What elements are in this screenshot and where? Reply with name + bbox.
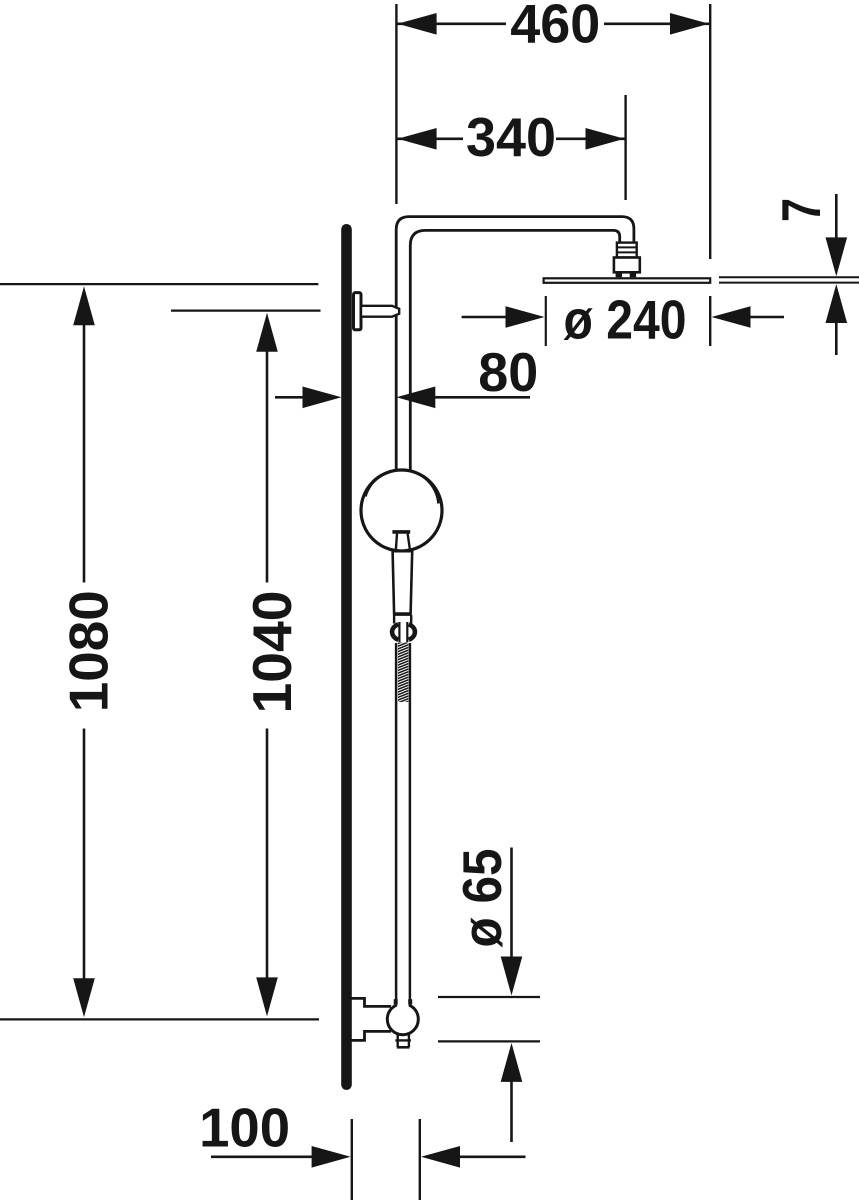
dim 1040 arrow up [256, 313, 278, 352]
svg-text:1040: 1040 [241, 591, 303, 714]
nut inner lines [398, 622, 400, 642]
valve outlet [397, 1034, 399, 1047]
dim 1040 arrow down [256, 977, 278, 1016]
rain shower head plate [544, 278, 711, 283]
dim 7 arrow up [826, 284, 848, 323]
dim ø65 ext bottom [438, 1040, 540, 1042]
hose end flange right [408, 999, 412, 1004]
dim 7 arrow down [826, 237, 848, 276]
dim ø240 left tick [545, 296, 547, 346]
dim ø65 ext top [438, 996, 540, 998]
dim 80 right arrow [396, 387, 435, 409]
hose braid hatch [398, 643, 408, 703]
dim 100 ext right [419, 1119, 421, 1200]
dim 100 arrow left-pointing [421, 1146, 460, 1168]
riser pipe and arm outer wall [396, 217, 634, 471]
dim ø65 arrow up [501, 1043, 523, 1082]
hose right wall [409, 643, 412, 1002]
dim 80 left arrow [303, 387, 342, 409]
dim ø240 right ext [709, 296, 711, 346]
body inner arc [366, 470, 439, 504]
bottom supply bracket bottom [351, 1031, 391, 1040]
dim 100 arrow right-pointing [312, 1146, 351, 1168]
dim 1040 lower line [266, 729, 269, 980]
dim 1080 arrow down [73, 978, 95, 1017]
dim 340 line [398, 138, 464, 141]
dim 1080 upper line [83, 323, 86, 583]
nut teeth [616, 272, 622, 277]
handle neck [393, 615, 395, 624]
ceiling reference line lower (7 dim) [719, 282, 859, 284]
dim 1080 arrow up [73, 286, 95, 325]
dim 1080 lower line [83, 729, 86, 981]
dim 7 upper line [835, 194, 838, 240]
dim ø65 upper line [510, 848, 513, 958]
dim 7 lower line [835, 320, 838, 355]
dim 100 line left [211, 1156, 313, 1159]
svg-text:100: 100 [199, 1097, 290, 1159]
dim 460 extension right [709, 4, 711, 259]
datum line top (1080) [0, 283, 318, 285]
dim 460 arrow left [398, 13, 437, 35]
svg-text:80: 80 [478, 341, 538, 403]
hose entry gap [397, 1001, 408, 1007]
dim 1040 upper line [266, 350, 269, 583]
supply valve circle [387, 1004, 418, 1035]
datum line bottom [0, 1018, 319, 1020]
svg-text:ø 240: ø 240 [564, 289, 687, 351]
svg-text:460: 460 [510, 0, 600, 55]
svg-text:340: 340 [466, 106, 556, 168]
hose left wall [395, 643, 398, 1002]
handle clip [392, 530, 410, 534]
dim ø65 arrow down [501, 957, 523, 996]
svg-text:1080: 1080 [58, 590, 120, 712]
dim ø240 left arrow [506, 306, 545, 328]
body circle [361, 470, 442, 551]
dim 340 arrow left [398, 128, 437, 150]
dim 340 arrow right [586, 128, 625, 150]
ceiling reference line upper (7 dim) [719, 276, 859, 278]
wall bar [341, 224, 352, 1090]
datum line mid (1040) [171, 310, 321, 312]
bracket rod [361, 306, 399, 317]
dim ø65 lower line [510, 1080, 513, 1142]
hose nut ring right arc [409, 624, 415, 640]
dim 100 ext left [351, 1119, 353, 1200]
upper wall bracket [354, 293, 362, 330]
dim ø240 right arrow [712, 306, 751, 328]
hand shower handle [393, 551, 413, 613]
hose end flange left [394, 999, 398, 1004]
dim 460 extension left [395, 4, 397, 204]
svg-text:7: 7 [770, 198, 832, 222]
dim 460 arrow right [670, 13, 709, 35]
dim 340 extension right [624, 95, 626, 200]
arm knurled collar [617, 243, 637, 258]
svg-text:ø 65: ø 65 [451, 849, 513, 948]
dim 460 line [398, 22, 507, 25]
riser pipe and arm inner wall [410, 230, 619, 470]
hose nut ring left arc [392, 624, 398, 640]
bottom supply bracket top [351, 998, 391, 1006]
arm nut [614, 258, 640, 273]
